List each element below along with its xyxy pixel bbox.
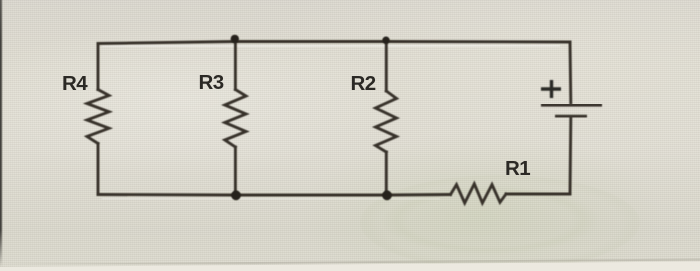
resistor R4 <box>87 90 109 144</box>
wire R2 bottom lead <box>385 152 388 195</box>
resistor R1 <box>451 184 507 203</box>
label R2 <box>351 72 376 96</box>
wire R4 bottom lead <box>97 144 100 195</box>
wire R2 top lead <box>385 42 388 92</box>
bottom photo edge light strip <box>0 258 700 271</box>
wire bottom right of R1 <box>506 193 570 196</box>
wire R3 top lead <box>234 42 237 90</box>
wire bottom rail left of R1 <box>98 193 451 196</box>
resistor R3 <box>225 90 246 148</box>
node junction top R3 <box>231 35 239 43</box>
label R3 <box>199 71 224 95</box>
battery positive plate <box>541 103 602 107</box>
wire battery bottom lead <box>569 118 573 194</box>
node junction bottom R3 <box>231 190 241 200</box>
highlight under top wire <box>102 45 560 47</box>
label R4 <box>62 72 87 96</box>
wire top rail <box>98 42 570 44</box>
highlight under bottom wire <box>102 197 440 200</box>
battery plus sign <box>541 87 561 90</box>
wire battery top lead <box>569 42 573 103</box>
node junction top R2 <box>382 37 389 44</box>
node junction bottom R2 <box>382 190 392 200</box>
battery negative plate <box>555 115 587 119</box>
wire R3 bottom lead <box>234 147 237 195</box>
label R1 <box>505 157 530 181</box>
resistor R2 <box>376 91 397 152</box>
wire left branch top lead <box>97 44 100 90</box>
left photo edge dark stripe <box>0 0 3 267</box>
